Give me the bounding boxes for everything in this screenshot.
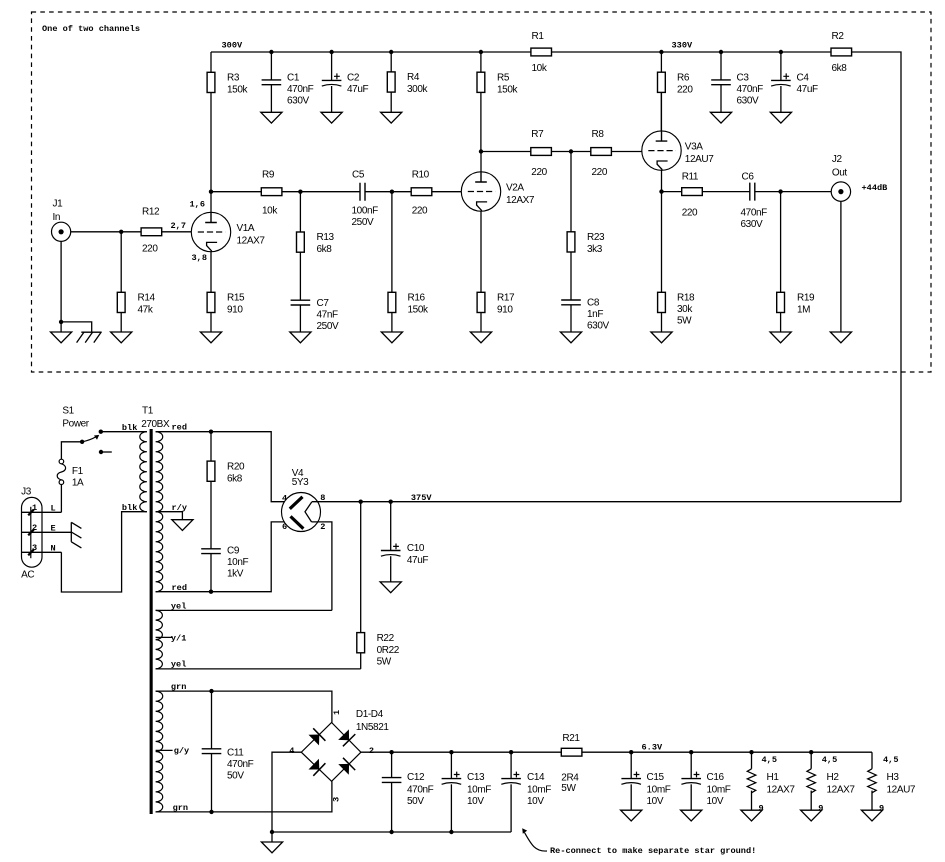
capacitor C11 <box>202 691 254 812</box>
svg-text:220: 220 <box>592 167 608 178</box>
svg-text:red: red <box>172 423 187 433</box>
junction at C15 <box>629 750 633 754</box>
svg-text:220: 220 <box>677 85 693 96</box>
svg-text:47uF: 47uF <box>347 84 368 95</box>
svg-text:F1: F1 <box>72 466 84 477</box>
svg-text:470nF: 470nF <box>227 759 254 770</box>
svg-text:R6: R6 <box>677 73 690 84</box>
svg-text:C2: C2 <box>347 72 360 83</box>
fuse F1 <box>57 459 84 488</box>
junction at H2 <box>809 750 813 754</box>
ground <box>801 810 822 821</box>
svg-text:V3A: V3A <box>685 142 703 153</box>
connector J2 <box>831 154 850 202</box>
resistor R6 <box>658 52 694 131</box>
svg-text:C3: C3 <box>737 72 750 83</box>
capacitor C1 <box>262 52 314 112</box>
svg-text:5Y3: 5Y3 <box>292 477 309 488</box>
svg-text:J1: J1 <box>53 199 64 210</box>
resistor R12 <box>141 207 162 255</box>
svg-text:D1-D4: D1-D4 <box>356 709 384 720</box>
transformer T1 5V winding <box>156 610 163 669</box>
svg-text:J2: J2 <box>832 154 843 165</box>
svg-text:R1: R1 <box>532 31 545 42</box>
junction at R5 top <box>479 50 483 54</box>
wire V2A plate <box>480 152 482 172</box>
svg-text:One of two channels: One of two channels <box>42 24 140 34</box>
ground <box>51 332 72 343</box>
capacitor C7 <box>291 298 339 332</box>
svg-text:T1: T1 <box>142 406 154 417</box>
ground <box>321 112 342 123</box>
svg-text:6k8: 6k8 <box>317 244 333 255</box>
svg-text:R9: R9 <box>262 169 275 180</box>
diode D2 <box>338 729 349 740</box>
wire V4 pin2 to yel <box>312 522 332 611</box>
svg-text:5W: 5W <box>561 783 576 794</box>
svg-text:10V: 10V <box>647 796 664 807</box>
svg-text:H2: H2 <box>827 772 840 783</box>
switch S1 <box>62 405 111 454</box>
chassis earth <box>81 331 101 333</box>
diode D3 <box>309 759 320 770</box>
svg-text:C7: C7 <box>317 298 330 309</box>
wire grn top <box>156 691 332 722</box>
svg-text:6k8: 6k8 <box>832 63 848 74</box>
junction chassis branch <box>59 320 63 324</box>
wire <box>852 52 901 502</box>
capacitor C13 <box>442 752 492 832</box>
resistor R11 <box>682 172 703 219</box>
connector J1 <box>52 199 71 242</box>
junction at C14 <box>509 750 513 754</box>
wire star ground <box>271 832 273 842</box>
svg-text:R15: R15 <box>227 293 245 304</box>
transformer T1 primary winding <box>140 432 147 512</box>
svg-text:150k: 150k <box>227 85 248 96</box>
svg-text:2: 2 <box>320 522 325 532</box>
junction C11 top <box>209 689 213 693</box>
capacitor C10 <box>381 502 428 582</box>
svg-text:R10: R10 <box>412 169 430 180</box>
junction R14 top <box>119 230 123 234</box>
svg-text:47uF: 47uF <box>407 555 428 566</box>
svg-text:1M: 1M <box>797 305 810 316</box>
svg-text:12AU7: 12AU7 <box>685 154 714 165</box>
ground <box>830 332 851 343</box>
svg-text:yel: yel <box>171 601 186 611</box>
junction C10 top <box>389 500 393 504</box>
junction at C13 <box>449 750 453 754</box>
svg-text:5W: 5W <box>677 315 692 326</box>
svg-text:3,8: 3,8 <box>192 253 207 263</box>
junction V1A anode <box>209 190 213 194</box>
resistor R15 <box>207 252 245 332</box>
svg-text:+44dB: +44dB <box>862 183 888 193</box>
wire <box>211 51 531 53</box>
junction R22 top <box>359 500 363 504</box>
svg-text:V1A: V1A <box>237 223 255 234</box>
svg-text:J3: J3 <box>21 487 32 498</box>
wire J2 ground <box>840 201 842 332</box>
wire to chassis earth <box>61 322 92 332</box>
wire 375V rail <box>312 501 901 503</box>
triode V2A <box>461 172 535 211</box>
svg-text:12AX7: 12AX7 <box>237 236 266 247</box>
resistor R14 <box>117 232 155 332</box>
svg-text:R3: R3 <box>227 73 240 84</box>
wire <box>71 231 141 233</box>
svg-text:3k3: 3k3 <box>587 244 603 255</box>
svg-text:R18: R18 <box>677 292 695 303</box>
svg-text:S1: S1 <box>62 405 74 416</box>
capacitor C15 <box>621 752 670 810</box>
wire V2A cathode <box>480 211 482 292</box>
resistor R7 <box>531 129 552 178</box>
resistor R18 <box>658 292 695 332</box>
svg-text:R2: R2 <box>832 31 845 42</box>
svg-text:375V: 375V <box>411 493 432 503</box>
heater H2 <box>807 752 855 813</box>
ground <box>380 582 401 593</box>
svg-text:630V: 630V <box>737 95 759 106</box>
svg-text:10V: 10V <box>527 796 544 807</box>
resistor R16 <box>388 192 429 332</box>
svg-text:R4: R4 <box>407 72 420 83</box>
svg-text:Out: Out <box>832 167 848 178</box>
svg-text:H3: H3 <box>887 772 900 783</box>
svg-text:10V: 10V <box>707 796 724 807</box>
svg-text:220: 220 <box>142 244 158 255</box>
svg-text:H1: H1 <box>767 772 780 783</box>
svg-text:1nF: 1nF <box>587 309 603 320</box>
svg-text:3: 3 <box>332 797 342 802</box>
svg-text:220: 220 <box>412 206 428 217</box>
ground <box>681 810 702 821</box>
svg-text:Power: Power <box>62 419 89 430</box>
svg-text:250V: 250V <box>352 217 374 228</box>
svg-text:C10: C10 <box>407 543 425 554</box>
annotation arrow <box>525 833 548 852</box>
ground <box>861 810 882 821</box>
svg-text:300V: 300V <box>222 41 243 51</box>
junction R23 top <box>569 149 573 153</box>
resistor R20 <box>207 432 245 549</box>
triode V3A <box>642 131 714 170</box>
svg-text:E: E <box>51 523 56 533</box>
wire ground rail <box>272 831 511 833</box>
resistor R10 <box>411 169 432 216</box>
svg-text:6: 6 <box>282 522 287 532</box>
svg-text:R7: R7 <box>531 129 544 140</box>
heater H3 <box>868 752 916 813</box>
svg-text:R22: R22 <box>377 633 395 644</box>
svg-text:220: 220 <box>531 167 547 178</box>
svg-text:470nF: 470nF <box>287 84 314 95</box>
capacitor C5 <box>352 169 379 228</box>
svg-text:30k: 30k <box>677 304 693 315</box>
junction C12 bottom <box>389 830 393 834</box>
svg-text:C14: C14 <box>527 772 545 783</box>
svg-text:470nF: 470nF <box>737 84 764 95</box>
svg-text:50V: 50V <box>227 770 244 781</box>
wire fuse to switch <box>61 442 82 459</box>
svg-text:1,6: 1,6 <box>190 200 205 210</box>
wire y/l tap <box>156 636 173 638</box>
svg-text:3: 3 <box>32 543 37 553</box>
svg-text:10mF: 10mF <box>527 785 551 796</box>
svg-text:C4: C4 <box>797 72 810 83</box>
capacitor C8 <box>561 298 609 332</box>
junction V2A anode <box>479 149 483 153</box>
wire red top <box>156 432 285 502</box>
rectifier tube V4 <box>282 468 326 532</box>
ground <box>741 810 762 821</box>
junction R16 top <box>390 190 394 194</box>
junction V3A cathode <box>659 189 663 193</box>
wire <box>481 151 531 153</box>
junction R20 top <box>209 430 213 434</box>
junction at C2 top <box>329 50 333 54</box>
wire V3A plate <box>660 92 662 130</box>
svg-text:R13: R13 <box>317 232 335 243</box>
svg-text:1: 1 <box>32 503 37 513</box>
svg-text:5W: 5W <box>377 657 392 668</box>
svg-text:4: 4 <box>289 746 294 756</box>
diode D4 <box>338 764 349 775</box>
junction C9 bottom <box>209 590 213 594</box>
junction C13 bottom <box>449 830 453 834</box>
capacitor C4 <box>771 52 818 112</box>
svg-text:300k: 300k <box>407 84 428 95</box>
svg-text:R17: R17 <box>497 293 515 304</box>
wire <box>755 191 831 193</box>
capacitor C12 <box>382 752 434 832</box>
wire r/y tap <box>156 512 183 520</box>
svg-text:2R4: 2R4 <box>561 773 579 784</box>
capacitor C3 <box>711 52 763 112</box>
ground <box>261 842 282 853</box>
wire g/y tap <box>156 749 173 751</box>
transformer T1 core <box>150 429 153 814</box>
resistor R2 <box>831 31 852 74</box>
resistor R8 <box>591 129 612 178</box>
svg-text:AC: AC <box>21 570 34 581</box>
svg-text:C8: C8 <box>587 298 600 309</box>
ground <box>381 332 402 343</box>
svg-text:g/y: g/y <box>174 746 189 756</box>
svg-text:2: 2 <box>369 746 374 756</box>
svg-text:grn: grn <box>171 682 186 692</box>
svg-text:12AX7: 12AX7 <box>506 195 535 206</box>
transformer T1 6.3V winding <box>156 691 163 812</box>
ground <box>200 332 221 343</box>
wire DC+ rail <box>361 751 872 753</box>
svg-text:C6: C6 <box>742 172 755 183</box>
svg-text:2: 2 <box>32 523 37 533</box>
svg-text:C15: C15 <box>647 772 665 783</box>
wire V3A cathode <box>661 170 663 292</box>
pin 2 E <box>22 531 72 533</box>
capacitor C6 <box>741 172 768 230</box>
wire <box>551 151 590 153</box>
wire <box>702 191 750 193</box>
connector J3 <box>21 487 42 581</box>
svg-text:220: 220 <box>682 207 698 218</box>
svg-text:1A: 1A <box>72 477 84 488</box>
svg-text:12AX7: 12AX7 <box>767 785 796 796</box>
svg-text:R14: R14 <box>138 293 156 304</box>
svg-text:1: 1 <box>332 710 342 715</box>
svg-text:47uF: 47uF <box>797 84 818 95</box>
wire <box>662 191 682 193</box>
svg-text:y/1: y/1 <box>171 634 186 644</box>
svg-text:R23: R23 <box>587 232 605 243</box>
svg-text:C11: C11 <box>227 747 244 758</box>
ground <box>770 332 791 343</box>
svg-text:grn: grn <box>173 803 188 813</box>
wire yel bottom <box>156 668 361 670</box>
ground <box>651 332 672 343</box>
svg-text:150k: 150k <box>408 305 429 316</box>
svg-text:red: red <box>172 583 187 593</box>
svg-text:N: N <box>51 543 56 553</box>
svg-text:R21: R21 <box>562 733 580 744</box>
ground <box>560 332 581 343</box>
junction R13 top <box>298 190 302 194</box>
wire to V1A grid <box>162 231 192 233</box>
svg-text:10k: 10k <box>262 206 278 217</box>
svg-text:In: In <box>53 212 61 223</box>
ground <box>621 810 642 821</box>
wire <box>211 191 261 193</box>
ground <box>381 112 402 123</box>
svg-text:C13: C13 <box>467 772 485 783</box>
wire <box>282 191 360 193</box>
wire J1 to ground <box>60 241 62 332</box>
resistor R17 <box>477 292 515 332</box>
transformer T1 HT secondary winding <box>156 432 163 592</box>
svg-text:C5: C5 <box>352 169 365 180</box>
resistor R21 <box>561 733 582 794</box>
svg-text:250V: 250V <box>317 321 339 332</box>
svg-text:4,5: 4,5 <box>762 755 777 765</box>
ground <box>710 112 731 123</box>
svg-text:10mF: 10mF <box>467 785 491 796</box>
svg-text:C9: C9 <box>227 546 240 557</box>
svg-text:12AU7: 12AU7 <box>887 785 916 796</box>
svg-text:630V: 630V <box>587 321 609 332</box>
svg-text:10nF: 10nF <box>227 557 248 568</box>
svg-text:1kV: 1kV <box>227 569 244 580</box>
junction at R6 top <box>659 50 663 54</box>
resistor R4 <box>387 52 428 112</box>
svg-text:630V: 630V <box>741 219 763 230</box>
svg-text:10mF: 10mF <box>707 785 731 796</box>
svg-text:blk: blk <box>122 423 137 433</box>
svg-text:yel: yel <box>171 660 186 670</box>
svg-text:470nF: 470nF <box>407 785 434 796</box>
wire node4 to ground rail <box>272 752 301 832</box>
svg-text:910: 910 <box>227 305 243 316</box>
svg-text:47nF: 47nF <box>317 309 338 320</box>
ground <box>770 112 791 123</box>
svg-text:470nF: 470nF <box>741 207 768 218</box>
svg-text:L: L <box>51 503 56 513</box>
svg-text:6.3V: 6.3V <box>642 742 663 752</box>
junction at C16 <box>689 750 693 754</box>
svg-text:270BX: 270BX <box>141 419 170 430</box>
svg-text:12AX7: 12AX7 <box>827 785 856 796</box>
svg-text:100nF: 100nF <box>352 206 379 217</box>
svg-text:R11: R11 <box>682 172 699 183</box>
chassis earth at E pin <box>70 522 72 542</box>
wire grn bottom <box>156 781 332 812</box>
ground <box>111 332 132 343</box>
capacitor C14 <box>501 752 551 832</box>
svg-text:R20: R20 <box>227 461 245 472</box>
junction at H1 <box>749 750 753 754</box>
junction star ground <box>270 830 274 834</box>
capacitor C16 <box>681 752 730 810</box>
svg-text:630V: 630V <box>287 95 309 106</box>
heater H1 <box>747 752 795 813</box>
ground <box>261 112 282 123</box>
wire <box>365 191 411 193</box>
wire <box>552 51 832 53</box>
svg-text:r/y: r/y <box>172 503 187 513</box>
svg-text:10V: 10V <box>467 796 484 807</box>
svg-text:C12: C12 <box>407 772 425 783</box>
wire to V2A grid <box>432 191 461 193</box>
svg-text:4,5: 4,5 <box>822 755 837 765</box>
diode D1 <box>309 735 320 746</box>
resistor R23 <box>567 152 605 301</box>
junction R19 top <box>778 189 782 193</box>
triode V1A <box>190 200 266 263</box>
svg-text:R8: R8 <box>592 129 605 140</box>
pin 3 N <box>22 551 62 553</box>
resistor R5 <box>477 52 518 152</box>
pin 1 L <box>22 511 62 513</box>
bridge frame <box>301 723 361 782</box>
junction at C3 top <box>719 50 723 54</box>
svg-text:R12: R12 <box>142 207 160 218</box>
svg-text:10k: 10k <box>532 63 548 74</box>
capacitor C9 <box>201 546 248 592</box>
ground <box>470 332 491 343</box>
resistor R22 <box>357 502 400 669</box>
wire switch to T1 <box>101 431 147 433</box>
junction at R4 top <box>389 50 393 54</box>
capacitor C2 <box>322 52 369 112</box>
resistor R9 <box>261 169 282 216</box>
wire L to fuse <box>60 484 62 512</box>
svg-text:4: 4 <box>282 493 287 503</box>
svg-text:C16: C16 <box>707 772 725 783</box>
svg-text:R5: R5 <box>497 73 510 84</box>
ground <box>290 332 311 343</box>
svg-text:2,7: 2,7 <box>171 221 186 231</box>
svg-text:50V: 50V <box>407 796 424 807</box>
wire to V3A grid <box>611 151 641 153</box>
ground <box>172 520 193 531</box>
junction at C12 <box>389 750 393 754</box>
svg-text:V2A: V2A <box>506 183 524 194</box>
resistor R3 <box>207 52 248 212</box>
wire N to T1 primary bottom <box>61 512 146 592</box>
wire yel top <box>156 609 332 611</box>
